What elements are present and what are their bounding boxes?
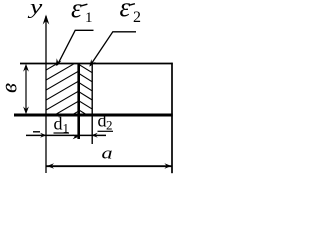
label epsilon-1 — [71, 0, 93, 26]
svg-text:2: 2 — [106, 118, 113, 133]
svg-text:ε: ε — [71, 0, 82, 23]
svg-text:в: в — [0, 83, 22, 93]
dimension line в — [25, 66, 27, 113]
arrow at divider pointing right — [73, 134, 79, 139]
leader line epsilon-2 — [90, 32, 136, 66]
capacitor right edge — [171, 63, 173, 174]
arrow at x=92.8 pointing left — [91, 133, 98, 138]
label d1 — [54, 114, 70, 136]
label epsilon-1 top serif — [81, 4, 87, 6]
dielectric slab 2 hatching — [80, 65, 94, 119]
svg-text:1: 1 — [85, 10, 93, 26]
y-axis arrowhead — [43, 15, 50, 25]
dielectric slab 1 hatching — [46, 52, 78, 131]
dimension line d (horizontal) — [26, 134, 106, 136]
y-axis — [45, 16, 47, 173]
underline d1 — [54, 132, 70, 134]
label d2 — [98, 111, 113, 133]
label epsilon-2 — [120, 0, 142, 26]
svg-text:d: d — [54, 114, 63, 134]
capacitor top edge — [20, 63, 173, 65]
svg-text:ε: ε — [120, 0, 131, 22]
d1 arrow upper shaft artifact — [33, 131, 40, 133]
dimension line a — [47, 165, 172, 167]
underline d2 — [98, 130, 114, 132]
leader line epsilon-1 — [57, 30, 93, 65]
slab 2 right edge — [91, 63, 93, 144]
svg-text:2: 2 — [133, 9, 141, 26]
middle divider (thick) — [77, 63, 80, 139]
label epsilon-2 top serif — [129, 4, 135, 6]
arrow at x=46 pointing right — [40, 133, 46, 138]
bottom plate (thick) — [14, 114, 173, 117]
svg-text:a: a — [102, 144, 113, 163]
